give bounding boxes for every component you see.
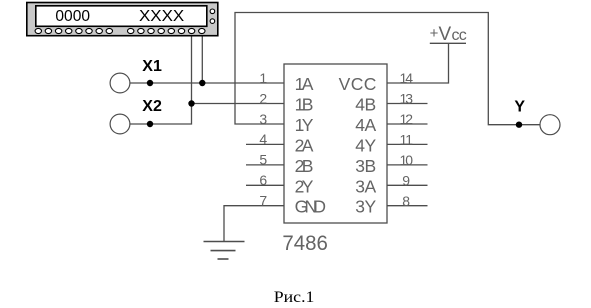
svg-text:+: + bbox=[430, 25, 439, 42]
svg-text:XXXX: XXXX bbox=[139, 8, 185, 25]
svg-text:2: 2 bbox=[259, 90, 267, 106]
svg-text:1Y: 1Y bbox=[295, 115, 314, 135]
svg-text:X1: X1 bbox=[142, 58, 162, 75]
svg-text:9: 9 bbox=[402, 172, 410, 188]
svg-text:Рис.1: Рис.1 bbox=[274, 289, 315, 306]
svg-text:5: 5 bbox=[259, 152, 267, 168]
svg-text:4: 4 bbox=[259, 131, 267, 147]
svg-text:8: 8 bbox=[402, 193, 410, 209]
svg-text:1B: 1B bbox=[295, 95, 314, 115]
svg-text:4A: 4A bbox=[355, 115, 376, 135]
svg-text:11: 11 bbox=[400, 132, 414, 148]
svg-text:1A: 1A bbox=[295, 74, 314, 94]
svg-text:2B: 2B bbox=[295, 156, 314, 176]
svg-text:Y: Y bbox=[514, 98, 525, 115]
svg-text:4B: 4B bbox=[355, 95, 376, 115]
svg-text:12: 12 bbox=[400, 111, 414, 127]
svg-text:GND: GND bbox=[295, 197, 326, 217]
svg-text:14: 14 bbox=[400, 70, 414, 86]
svg-text:2A: 2A bbox=[295, 135, 314, 155]
svg-text:7486: 7486 bbox=[282, 231, 328, 255]
svg-text:X2: X2 bbox=[142, 98, 162, 115]
svg-text:4Y: 4Y bbox=[355, 135, 376, 155]
svg-text:cc: cc bbox=[452, 27, 467, 44]
svg-text:VCC: VCC bbox=[339, 74, 377, 94]
svg-text:3Y: 3Y bbox=[355, 197, 376, 217]
svg-text:10: 10 bbox=[400, 152, 414, 168]
svg-text:6: 6 bbox=[259, 172, 267, 188]
svg-text:13: 13 bbox=[400, 91, 414, 107]
svg-text:3: 3 bbox=[259, 111, 267, 127]
svg-text:0000: 0000 bbox=[55, 8, 90, 25]
svg-text:3A: 3A bbox=[355, 176, 376, 196]
svg-text:3B: 3B bbox=[355, 156, 376, 176]
svg-text:1: 1 bbox=[259, 70, 267, 86]
svg-text:7: 7 bbox=[259, 193, 267, 209]
svg-text:V: V bbox=[439, 24, 452, 45]
svg-text:2Y: 2Y bbox=[295, 176, 314, 196]
